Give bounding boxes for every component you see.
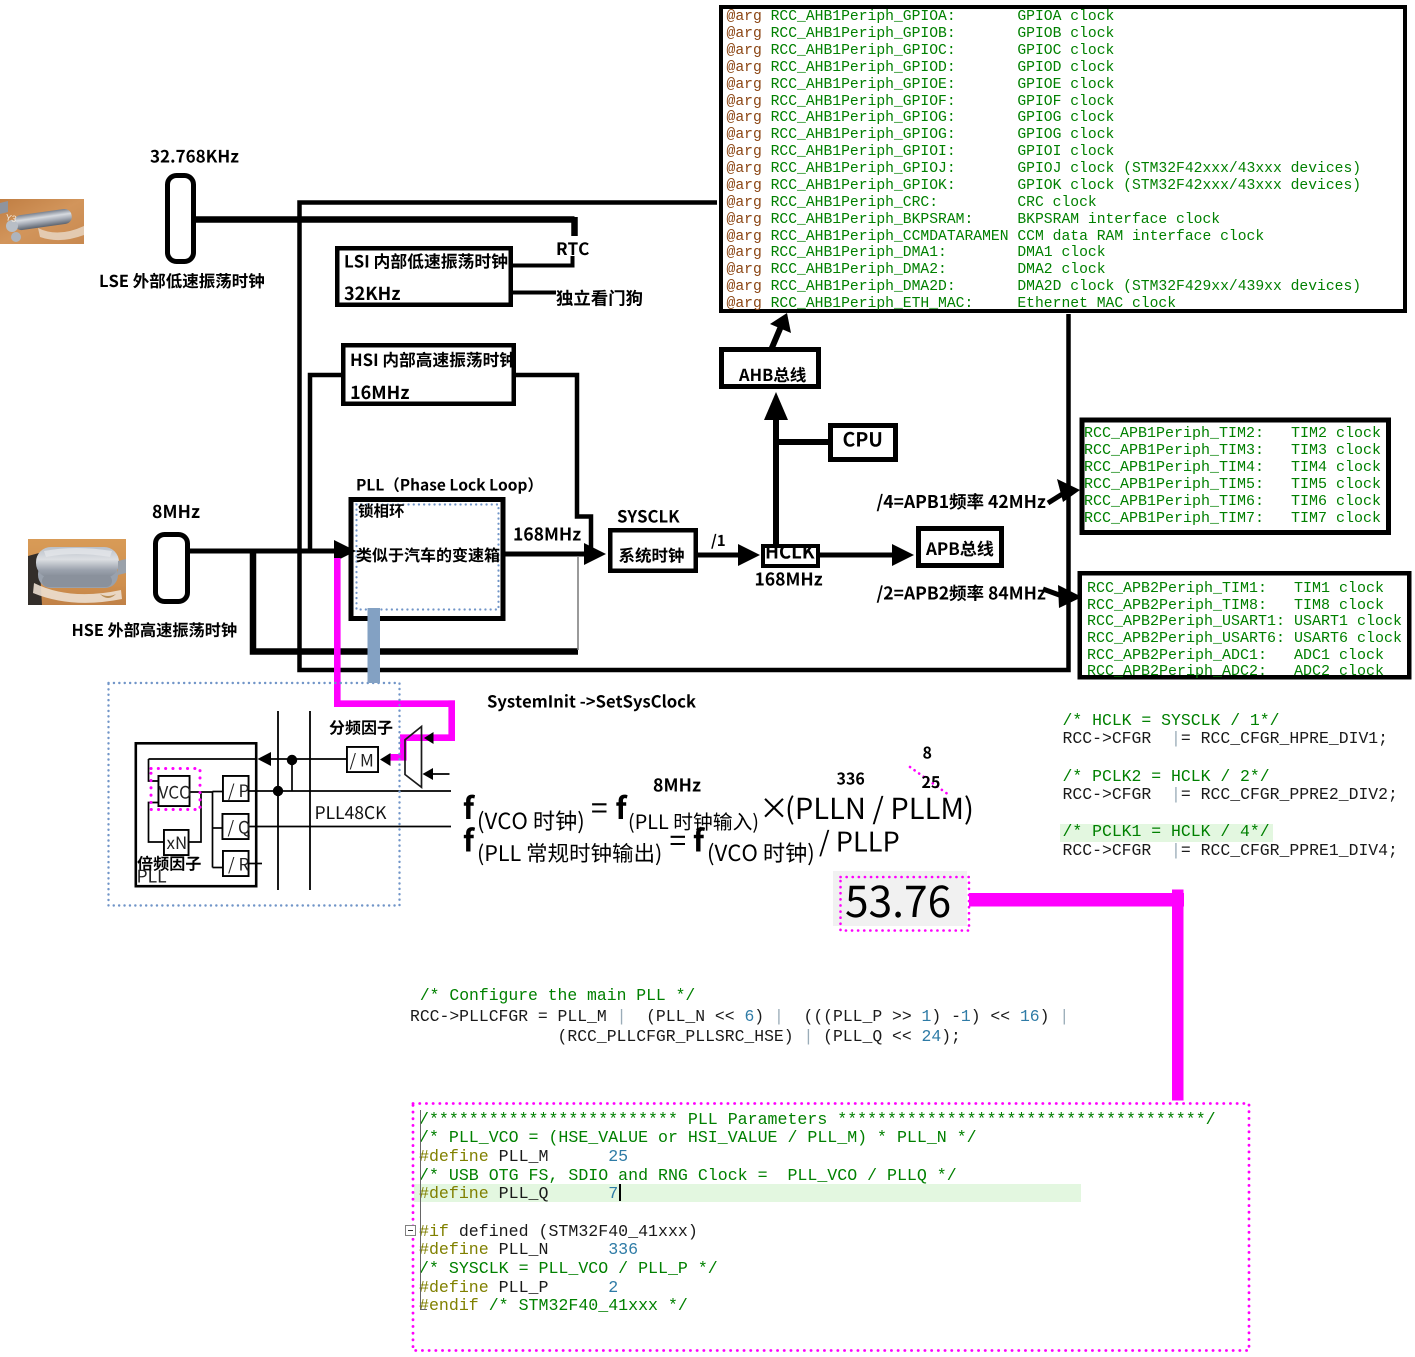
wire HSE to PLL bbox=[188, 549, 342, 554]
mux input 2 stub bbox=[431, 773, 450, 775]
label / P bbox=[228, 784, 248, 801]
code text: AHB1 peripheral args bbox=[727, 9, 1362, 313]
wire bus to /R bbox=[213, 867, 223, 869]
magenta highlight path mux to /M bbox=[337, 558, 451, 757]
wire VCO to xN loop bbox=[149, 803, 164, 843]
arrowhead into APB1 box bbox=[1057, 479, 1080, 502]
arrowhead mux input 1 over magenta bbox=[424, 732, 434, 744]
label 倍频因子 bbox=[137, 856, 200, 871]
formula line1 PLLN/PLLM bbox=[788, 795, 972, 825]
wire /R stub bbox=[250, 863, 263, 865]
label HSI 内部高速振荡时钟 bbox=[352, 352, 516, 368]
label 系统时钟 bbox=[619, 547, 684, 563]
wire LSE-RTC vertical stub bbox=[571, 217, 578, 236]
label 独立看门狗 bbox=[556, 290, 642, 307]
dotted box PLL parameters bbox=[413, 1104, 1249, 1351]
arrowhead up into AHB bus bbox=[764, 392, 788, 420]
wire LSI to watchdog bbox=[513, 291, 556, 295]
label SystemInit ->SetSysClock bbox=[488, 694, 696, 711]
arrow AHB to peripheral list (slant) bbox=[771, 324, 782, 350]
box HCLK bbox=[763, 546, 818, 566]
photo: HSE crystal on orange PCB bbox=[28, 539, 126, 605]
wire LSI to RTC bbox=[513, 256, 573, 266]
label / M bbox=[350, 753, 372, 770]
stub between feedback and /P line bbox=[291, 760, 293, 791]
formula line1 equals bbox=[592, 803, 606, 812]
formula line2 f1 bbox=[464, 827, 475, 851]
wire bus to /P bbox=[213, 791, 223, 793]
wire feedback inside PLL top bbox=[149, 758, 257, 760]
label LSI 内部低速振荡时钟 bbox=[346, 253, 508, 269]
code text: HCLK/PCLK config bbox=[1063, 712, 1398, 861]
wire /P long output bbox=[250, 790, 452, 792]
arrowhead into PLL detail box bbox=[258, 752, 272, 766]
photo: LSE crystal on orange PCB bbox=[0, 199, 84, 244]
label 168MHz (PLL out) bbox=[514, 527, 580, 540]
label SYSCLK bbox=[618, 510, 680, 523]
wire bus to /Q bbox=[213, 827, 223, 829]
label /2=APB2频率 84MHz bbox=[877, 585, 1046, 603]
label / R bbox=[228, 857, 249, 874]
box AHB1 peripheral args bbox=[721, 7, 1405, 311]
wire VCO output bus bbox=[191, 792, 213, 868]
vertical bus line 1 bbox=[277, 711, 279, 890]
label VCO bbox=[159, 786, 191, 799]
box xN bbox=[164, 830, 189, 855]
formula line2 sub1 bbox=[479, 843, 660, 865]
code text: APB2 peripherals bbox=[1087, 581, 1402, 681]
arrowhead into @arg box bbox=[770, 313, 791, 333]
box CPU bbox=[831, 426, 896, 460]
mux trapezoid bbox=[405, 727, 422, 788]
fold scope line bbox=[420, 1110, 421, 1310]
magenta dotted highlight around VCO bbox=[151, 769, 200, 810]
label 类似于汽车的变速箱 bbox=[357, 547, 500, 562]
wire feedback /M output into PLL bbox=[268, 758, 346, 760]
junction dot on feedback line bbox=[287, 755, 297, 765]
box SYSCLK bbox=[610, 530, 696, 571]
formula line1 times bbox=[764, 798, 783, 817]
text cursor after PLL_Q 7 bbox=[619, 1184, 621, 1201]
arrowhead mux output into /M bbox=[380, 753, 391, 766]
crystal symbol LSE bbox=[168, 176, 194, 262]
wire HSI right to SYSCLK mux bbox=[516, 375, 591, 552]
box 53.76 background bbox=[833, 871, 967, 926]
label 锁相环 bbox=[358, 503, 404, 518]
label HCLK bbox=[767, 545, 815, 559]
box PLL bbox=[351, 500, 503, 619]
label LSE 外部低速振荡时钟 bbox=[101, 273, 265, 289]
formula line1 sub2 bbox=[630, 812, 757, 833]
formula line1 f1 bbox=[464, 795, 475, 819]
arrowhead into HCLK bbox=[738, 544, 760, 566]
code text: configure main PLL bbox=[410, 986, 1069, 1047]
formula line1 f2 bbox=[616, 795, 627, 819]
wire LSE to RTC bbox=[194, 216, 575, 223]
magenta corner fill bbox=[448, 700, 455, 707]
box /P bbox=[223, 776, 249, 801]
label / Q bbox=[228, 820, 250, 837]
label 分频因子 bbox=[330, 720, 393, 735]
arrow to APB1 list (slant) bbox=[1048, 493, 1064, 503]
arrowhead into SYSCLK bbox=[584, 543, 606, 565]
label APB总线 bbox=[926, 541, 994, 557]
label 25 bbox=[922, 776, 939, 788]
box VCO bbox=[158, 776, 189, 806]
box LSI internal low-speed osc bbox=[337, 248, 511, 305]
green highlight PCLK1 line bbox=[1060, 824, 1273, 842]
code text: APB1 peripherals bbox=[1084, 425, 1381, 528]
dotted box PLL detail area bbox=[109, 683, 400, 906]
label RTC bbox=[558, 242, 589, 255]
label 32KHz bbox=[345, 286, 400, 300]
label CPU bbox=[844, 432, 882, 447]
label 8MHz (HSE) bbox=[153, 505, 200, 519]
vertical bus line 2 bbox=[309, 711, 311, 890]
dotted inner box of PLL bbox=[357, 505, 499, 610]
label 16MHz bbox=[352, 385, 409, 399]
fold minus icon at #if bbox=[405, 1225, 416, 1236]
label HSE 外部高速振荡时钟 bbox=[73, 622, 236, 638]
label 8 bbox=[923, 747, 931, 759]
label 168MHz (HCLK) bbox=[756, 572, 822, 585]
label 32.768KHz bbox=[150, 150, 238, 163]
label PLL (detail) bbox=[138, 870, 166, 883]
formula line1 sub1 bbox=[479, 810, 583, 833]
box APB bus bbox=[919, 529, 1002, 566]
formula line2 equals bbox=[671, 836, 685, 845]
crystal symbol HSE bbox=[156, 535, 188, 602]
formula line2 sub2 bbox=[709, 842, 813, 865]
box /M bbox=[347, 747, 378, 772]
dotted border of 53.76 box bbox=[841, 877, 970, 931]
label /4=APB1频率 42MHz bbox=[877, 493, 1046, 511]
box HSI internal high-speed osc bbox=[343, 345, 514, 404]
box APB2 peripherals bbox=[1080, 573, 1410, 677]
arrowhead into APB bus bbox=[892, 544, 914, 566]
wire gray drop from SYSCLK input bbox=[577, 557, 579, 650]
formula line2 f2 bbox=[694, 827, 705, 851]
wire HCLK up to AHB bus bbox=[773, 420, 779, 544]
box /R bbox=[223, 851, 249, 876]
box PLL detail block bbox=[136, 743, 256, 886]
wire HSE branch to bottom mux bbox=[253, 551, 578, 652]
junction dot on /P line bbox=[273, 786, 283, 796]
wire xN out up to VCO out bbox=[190, 792, 202, 842]
label AHB总线 bbox=[739, 367, 806, 383]
label xN bbox=[167, 837, 186, 850]
arrow to APB2 list (slant) bbox=[1043, 589, 1062, 596]
wire SYSCLK to HCLK bbox=[698, 553, 742, 558]
green highlight #define PLL_Q line bbox=[414, 1184, 1081, 1202]
magenta dotted strike through 25 bbox=[910, 767, 949, 795]
magenta connector horizontal from 53.76 bbox=[969, 893, 1184, 907]
label 8MHz above formula bbox=[654, 778, 701, 792]
code text: PLL parameters bbox=[419, 1111, 1216, 1316]
box /Q bbox=[222, 814, 248, 839]
light blue bar over PLL bottom bbox=[368, 608, 381, 683]
label 53.76 bbox=[846, 885, 949, 917]
wire /Q long output bbox=[250, 826, 452, 828]
label PLL48CK bbox=[316, 806, 386, 819]
wire to VCO input bbox=[149, 759, 159, 781]
arrowhead into PLL bbox=[334, 540, 356, 562]
arrowhead into APB2 box bbox=[1058, 585, 1082, 608]
box AHB bus bbox=[722, 350, 819, 387]
wire HSI left to PLL input bbox=[310, 375, 341, 549]
magenta connector vertical to PLL parameters bbox=[1172, 890, 1184, 1101]
wire HCLK to APB bus bbox=[820, 553, 898, 558]
wire CPU to HCLK line bbox=[776, 439, 828, 445]
wire PLL to SYSCLK 168MHz bbox=[506, 552, 593, 557]
formula line2 /PLLP bbox=[819, 830, 898, 857]
label /1 bbox=[711, 534, 725, 549]
arrowhead mux input 2 bbox=[423, 768, 434, 780]
box APB1 peripherals bbox=[1082, 420, 1389, 533]
outer system box bbox=[300, 203, 1069, 671]
label 336 bbox=[837, 772, 864, 784]
label PLL (Phase Lock Loop) bbox=[357, 477, 532, 494]
